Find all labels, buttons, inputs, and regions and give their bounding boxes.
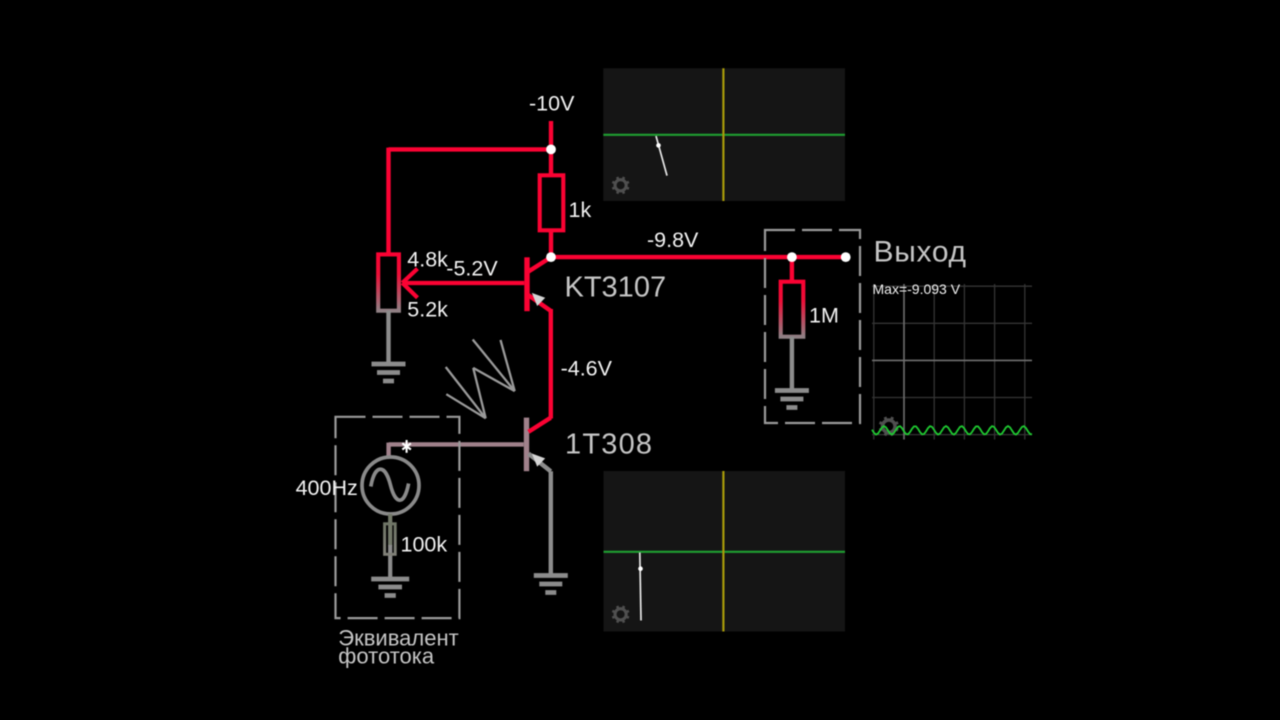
node: output end — [841, 252, 851, 262]
resistor R1 1k — [540, 149, 564, 257]
svg-text:KT3107: KT3107 — [565, 271, 667, 303]
scope B white trace — [638, 553, 643, 621]
potentiometer R2 — [378, 254, 399, 310]
ground under potentiometer — [372, 364, 406, 381]
ground under Q2 emitter — [534, 576, 568, 593]
resistor R3 100k — [385, 524, 396, 555]
dashed box: photocurrent equivalent — [336, 417, 460, 618]
wire: output line — [551, 255, 846, 259]
scope C green output waveform — [872, 426, 1032, 434]
scope A white trace — [656, 136, 667, 176]
node: collector junction — [546, 252, 556, 262]
wire: Q2 base lead (photocurrent input) — [389, 443, 524, 457]
svg-text:фототока: фототока — [338, 644, 435, 669]
wire: AC source to R3 — [388, 514, 392, 546]
node marker * — [402, 440, 411, 453]
scope C gear icon — [880, 417, 899, 436]
transistor Q1 KT3107 (PNP) — [524, 257, 551, 311]
svg-text:1M: 1M — [809, 304, 839, 328]
svg-text:1T308: 1T308 — [565, 429, 653, 461]
ground under AC source — [371, 579, 409, 596]
svg-text:1k: 1k — [569, 198, 592, 222]
scope C grid (output scope) — [872, 284, 1032, 440]
wire: interstage (Q1 emitter to Q2 collector) — [549, 309, 553, 419]
wire: -10V supply lead — [549, 121, 553, 149]
scope A gear icon — [612, 177, 629, 194]
wire: top horizontal feed — [389, 147, 552, 151]
svg-text:Выход: Выход — [874, 236, 967, 269]
scope A horizontal axis trace — [603, 134, 845, 136]
wire: left vertical to potentiometer — [386, 148, 390, 255]
scope A panel (top) — [603, 68, 845, 201]
scope C bright center gridlines — [872, 284, 1032, 440]
svg-text:-10V: -10V — [529, 92, 575, 116]
ground under R4 — [775, 391, 809, 408]
scope B panel (bottom) — [604, 471, 846, 632]
wire: R4 to ground — [790, 337, 794, 389]
svg-text:4.8k: 4.8k — [407, 247, 448, 271]
svg-text:100k: 100k — [401, 533, 448, 557]
AC source V1 — [362, 457, 419, 514]
svg-text:Max=-9.093 V: Max=-9.093 V — [873, 281, 961, 297]
svg-text:400Hz: 400Hz — [296, 476, 358, 500]
scope A vertical center line — [722, 68, 724, 201]
svg-text:-4.6V: -4.6V — [561, 357, 613, 381]
dashed box: output — [765, 230, 860, 423]
node: output tap — [787, 252, 797, 262]
transistor Q2 1T308 (PNP) — [524, 418, 551, 472]
svg-text:-5.2V: -5.2V — [446, 257, 498, 281]
wire: R3 to ground — [388, 545, 392, 577]
light arrows — [446, 340, 515, 419]
wire: Q2 emitter to ground — [549, 471, 553, 573]
node: supply junction — [546, 145, 556, 155]
resistor R4 1M — [781, 257, 804, 337]
potentiometer wiper arrow — [402, 269, 524, 298]
scope B vertical center line — [722, 471, 724, 632]
scope B gear icon — [612, 606, 629, 623]
scope B horizontal axis trace — [604, 551, 846, 553]
svg-text:5.2k: 5.2k — [407, 297, 448, 321]
svg-text:-9.8V: -9.8V — [647, 228, 699, 252]
wire: potentiometer to ground — [386, 311, 390, 362]
